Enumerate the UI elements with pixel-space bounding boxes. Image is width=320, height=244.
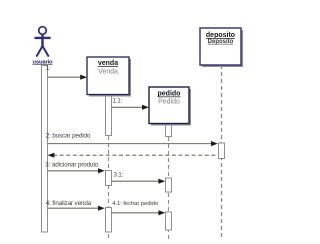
svg-text:Pedido: Pedido (158, 99, 180, 106)
svg-text:Deposito: Deposito (208, 39, 234, 45)
svg-text:venda: venda (98, 60, 118, 67)
svg-text:1:: 1: (46, 66, 51, 72)
svg-text:Venda: Venda (98, 69, 118, 76)
svg-text:4: finalizar venda: 4: finalizar venda (46, 200, 92, 207)
svg-text:3.1:: 3.1: (114, 173, 124, 179)
svg-text:pedido: pedido (158, 91, 181, 98)
svg-text:3: adicionar produto: 3: adicionar produto (45, 162, 99, 169)
svg-text:4.1: fechar pedido: 4.1: fechar pedido (112, 201, 159, 207)
svg-text:usuario: usuario (33, 59, 53, 65)
svg-text:1.1:: 1.1: (113, 99, 123, 105)
svg-text:2: buscar pedido: 2: buscar pedido (46, 133, 91, 140)
